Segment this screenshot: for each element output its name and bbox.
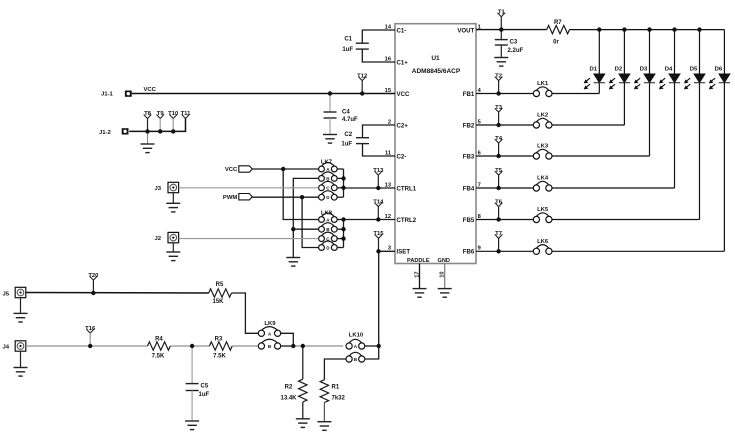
LED D5	[684, 66, 705, 89]
svg-text:LK6: LK6	[537, 239, 549, 245]
svg-text:C5: C5	[201, 384, 209, 390]
svg-text:FB1: FB1	[463, 91, 475, 98]
wire J4 row to R4	[26, 345, 148, 347]
wire PWM branch down to LK8-D	[302, 197, 318, 247]
wire J2 to ground	[172, 243, 174, 252]
svg-text:LK2: LK2	[537, 113, 549, 119]
svg-text:T4: T4	[495, 136, 503, 142]
svg-text:7k32: 7k32	[332, 395, 346, 401]
wire D4 cathode	[674, 83, 676, 188]
svg-text:7.5K: 7.5K	[213, 354, 226, 360]
ground under GND pin 10	[438, 289, 452, 298]
svg-text:T8: T8	[144, 111, 152, 117]
LED D1	[584, 66, 605, 89]
svg-text:J2: J2	[155, 236, 162, 242]
wire ISET vertical down to LK10-B	[365, 346, 379, 359]
svg-text:LK3: LK3	[537, 144, 549, 150]
test point T6	[495, 199, 503, 219]
svg-text:FB2: FB2	[463, 122, 475, 129]
svg-text:C2: C2	[344, 132, 352, 138]
jumper LK5	[533, 207, 552, 223]
net flag PWM	[223, 194, 252, 201]
jumper LK8-C	[319, 232, 338, 241]
test point T5	[495, 168, 503, 188]
test point T9	[156, 111, 164, 131]
svg-text:C3: C3	[510, 39, 518, 45]
svg-text:J4: J4	[3, 345, 10, 351]
wire PWM flag to LK7-D	[252, 196, 318, 198]
jumper LK7-A	[319, 163, 338, 172]
svg-text:T2: T2	[495, 73, 503, 79]
svg-text:T5: T5	[495, 168, 503, 174]
svg-text:0r: 0r	[553, 40, 559, 46]
ground under PADDLE pin 17	[413, 289, 427, 298]
svg-text:R2: R2	[285, 384, 293, 390]
wire FB5 row	[476, 219, 700, 221]
svg-text:D1: D1	[590, 66, 598, 72]
U1 right pin numbers	[478, 24, 482, 251]
svg-text:CTRL1: CTRL1	[397, 185, 417, 192]
svg-text:T15: T15	[373, 231, 384, 237]
ground under J2	[166, 252, 180, 261]
ground under J3	[166, 203, 180, 212]
wire LK10-A right to ISET vertical	[365, 345, 379, 347]
wire pin 17 to ground	[419, 264, 421, 289]
svg-text:LK1: LK1	[537, 81, 549, 87]
capacitor C3	[495, 39, 524, 54]
svg-text:VCC: VCC	[225, 167, 238, 173]
wire C5 stem	[191, 346, 193, 384]
resistor R7	[547, 20, 570, 46]
jumper LK7-C	[319, 181, 338, 190]
op-amp U1 ADM8845/6ACP IC body	[395, 24, 476, 264]
LED D2	[609, 66, 630, 89]
wire C4 stem	[329, 94, 331, 113]
svg-text:GND: GND	[438, 258, 450, 264]
ground under J1-2 rail	[141, 144, 155, 153]
wire D6 cathode	[723, 83, 725, 252]
svg-text:15K: 15K	[212, 299, 224, 305]
svg-text:7.5K: 7.5K	[152, 354, 165, 360]
test point T16	[85, 326, 96, 346]
capacitor C4	[324, 110, 359, 123]
wire CTRL2 to pin 12	[344, 219, 396, 221]
wire D3 cathode	[649, 83, 651, 156]
jumper LK9-B	[258, 339, 280, 349]
test point T20	[88, 273, 99, 293]
ground under J5	[14, 313, 28, 322]
wire FB3 row	[476, 155, 650, 157]
wire C3 stem	[500, 30, 502, 40]
wire ISET pin 3	[379, 250, 396, 252]
svg-text:D4: D4	[665, 66, 673, 72]
test point T11	[181, 111, 192, 118]
svg-text:VCC: VCC	[144, 87, 157, 93]
svg-text:T10: T10	[168, 111, 179, 117]
wire LK8-B stub	[293, 228, 318, 230]
svg-text:R3: R3	[215, 337, 223, 343]
test point T8	[144, 111, 152, 131]
wire VCC: J1-1 to pin 15	[132, 93, 395, 95]
wire pin2 C2+ to C2	[363, 125, 396, 138]
jumper LK6	[533, 239, 552, 255]
svg-text:1uF: 1uF	[342, 47, 353, 53]
svg-text:T16: T16	[85, 326, 96, 332]
wire D2 cathode	[623, 83, 625, 125]
wire D1 cathode	[598, 83, 600, 94]
wire VCC branch down to LK8-A	[283, 169, 318, 220]
wire FB2 row	[476, 124, 624, 126]
jumper LK4	[533, 176, 552, 192]
wire R3 to LK9-B	[232, 345, 258, 347]
svg-text:R4: R4	[155, 337, 163, 343]
wire C5 to ground	[191, 391, 193, 422]
net flag VCC	[225, 166, 252, 173]
LED D6	[709, 66, 730, 89]
ground under C5	[185, 421, 199, 430]
capacitor C2	[341, 132, 369, 147]
test point T15	[373, 231, 384, 251]
svg-text:FB5: FB5	[463, 217, 475, 224]
svg-text:C1-: C1-	[397, 27, 407, 34]
svg-text:FB4: FB4	[463, 185, 475, 192]
connector J1-2 pad	[122, 128, 129, 134]
wire VOUT pin1 to rail	[476, 29, 547, 31]
wire D5 cathode	[699, 83, 701, 220]
svg-text:C2+: C2+	[397, 122, 409, 129]
connector J5	[15, 287, 26, 297]
svg-text:J3: J3	[155, 186, 162, 192]
test point T2	[495, 73, 503, 93]
wire D5 anode	[699, 30, 701, 74]
wire LK7 right common vertical	[337, 169, 343, 197]
svg-text:LK9: LK9	[264, 321, 276, 327]
svg-text:VCC: VCC	[397, 91, 410, 98]
svg-text:FB6: FB6	[463, 249, 475, 256]
svg-text:T3: T3	[495, 105, 503, 111]
svg-text:J5: J5	[3, 291, 10, 297]
wire CTRL1 to pin 13	[344, 187, 396, 189]
capacitor C5	[186, 384, 210, 398]
svg-text:J1-2: J1-2	[99, 130, 112, 136]
svg-text:T7: T7	[495, 231, 503, 237]
jumper LK1	[533, 81, 552, 97]
wire C4 to ground	[329, 118, 331, 135]
resistor R1	[320, 380, 345, 403]
test point T12	[357, 73, 368, 93]
ground under J4	[14, 368, 28, 377]
svg-text:ADM8845/6ACP: ADM8845/6ACP	[412, 68, 461, 75]
wire J3 to ground	[172, 193, 174, 204]
wire R2 to ground	[302, 402, 304, 419]
svg-text:LK4: LK4	[537, 176, 549, 182]
svg-text:4.7uF: 4.7uF	[342, 117, 358, 123]
connector J2	[168, 232, 179, 242]
wire C1 to pin16 C1+	[362, 49, 395, 62]
wire LK10-B to R1	[324, 359, 346, 380]
svg-text:T1: T1	[498, 9, 506, 15]
svg-text:C1+: C1+	[397, 59, 409, 66]
jumper LK10-A	[346, 339, 365, 349]
wire J5 row to R5	[26, 292, 209, 295]
jumper LK8-A	[319, 213, 338, 222]
svg-text:FB3: FB3	[463, 153, 475, 160]
wire pin 10 to ground	[444, 264, 446, 289]
svg-text:C4: C4	[342, 110, 350, 116]
wire D4 anode	[674, 30, 676, 74]
test point T7	[495, 231, 503, 251]
wire C3 to ground	[500, 45, 502, 58]
wire R4 to R3	[170, 345, 209, 347]
wire LED anode rail	[570, 29, 725, 31]
wire FB4 row	[476, 187, 675, 189]
wire pin14 C1- to C1	[362, 30, 395, 43]
jumper LK8-B	[319, 223, 338, 232]
U1 left pin numbers	[385, 24, 392, 251]
wire D1 anode	[598, 30, 600, 74]
svg-text:T20: T20	[88, 273, 99, 279]
ground under C3	[494, 58, 508, 67]
svg-text:D5: D5	[690, 66, 698, 72]
ground under C4	[323, 135, 337, 144]
svg-text:PWM: PWM	[223, 195, 237, 201]
LED D4	[659, 66, 680, 89]
wire J1-2 to T11	[129, 118, 185, 131]
test point T1	[498, 9, 506, 29]
jumper LK7-D	[319, 191, 338, 200]
U1 bottom pin numbers 17 and 10 (rotated)	[414, 271, 445, 277]
svg-text:T9: T9	[157, 111, 165, 117]
svg-text:D2: D2	[615, 66, 623, 72]
wire FB1 row	[476, 93, 599, 95]
connector J3	[168, 182, 179, 192]
wire J3 to LK7-C	[179, 187, 319, 189]
wire J5 to ground	[20, 298, 22, 314]
wire D2 anode	[623, 30, 625, 74]
resistor R5	[209, 282, 232, 305]
svg-text:PADDLE: PADDLE	[407, 258, 430, 264]
wire C2 to pin11 C2-	[363, 144, 396, 156]
jumper LK9-A	[258, 327, 280, 337]
wire VCC flag to LK7-A	[252, 168, 318, 170]
test point T10	[168, 111, 179, 131]
wire FB6 row	[476, 250, 724, 252]
svg-text:C2-: C2-	[397, 153, 407, 160]
svg-text:1uF: 1uF	[341, 141, 352, 147]
LED D3	[634, 66, 655, 89]
svg-text:CTRL2: CTRL2	[397, 217, 417, 224]
wire D3 anode	[649, 30, 651, 74]
svg-text:C1: C1	[344, 37, 352, 43]
ground under R1	[317, 422, 331, 431]
svg-text:T13: T13	[373, 168, 384, 174]
ground for LK7/LK8 B option	[286, 258, 300, 267]
connector J1-1 pad	[125, 91, 132, 97]
svg-text:13.4K: 13.4K	[280, 395, 297, 401]
U1 bottom pin names PADDLE GND	[407, 258, 450, 264]
svg-text:T6: T6	[495, 199, 503, 205]
connector J4	[15, 341, 26, 351]
wire J4 to ground	[20, 351, 22, 367]
resistor R3	[209, 337, 232, 360]
jumper LK2	[533, 113, 552, 129]
wire R1 to ground	[323, 403, 325, 422]
wire R2 stem	[302, 346, 304, 379]
test point T4	[495, 136, 503, 156]
svg-text:R7: R7	[554, 20, 562, 26]
wire LK9-A to row B	[281, 333, 294, 346]
U1 right pin names	[457, 27, 475, 255]
svg-text:J1-1: J1-1	[101, 92, 114, 98]
capacitor C1	[342, 37, 368, 54]
jumper LK3	[533, 144, 552, 160]
svg-text:LK10: LK10	[349, 333, 364, 339]
resistor R4	[148, 337, 171, 360]
resistor R2	[280, 379, 307, 402]
wire R5 to LK9-A	[232, 293, 259, 333]
wire LK9-B right	[281, 345, 294, 347]
wire LK8 right common vertical	[337, 220, 343, 248]
test point T13	[373, 168, 384, 188]
jumper LK8-D	[319, 241, 338, 250]
svg-text:T14: T14	[373, 199, 384, 205]
svg-text:VOUT: VOUT	[457, 27, 474, 34]
svg-text:T11: T11	[181, 111, 192, 117]
svg-text:D3: D3	[640, 66, 648, 72]
wire D6 anode	[723, 30, 725, 74]
test point T3	[495, 105, 503, 125]
test point T14	[373, 199, 384, 219]
wire ISET down to LK10-A	[378, 251, 380, 346]
svg-text:ISET: ISET	[397, 249, 411, 256]
svg-text:R1: R1	[332, 384, 340, 390]
wire LK7-B to ground rail	[293, 178, 318, 257]
svg-text:2.2uF: 2.2uF	[508, 48, 524, 54]
jumper LK10-B	[346, 352, 365, 362]
svg-text:LK5: LK5	[537, 207, 549, 213]
wire LK9 to LK10	[293, 345, 343, 347]
wire T8 to ground	[147, 131, 149, 144]
svg-text:1uF: 1uF	[199, 392, 210, 398]
svg-text:D6: D6	[715, 66, 723, 72]
svg-text:U1: U1	[431, 55, 440, 62]
svg-text:T12: T12	[357, 73, 368, 79]
jumper LK7-B	[319, 172, 338, 181]
svg-text:R5: R5	[216, 282, 224, 288]
wire J2 to LK8-C	[179, 238, 319, 240]
ground under R2	[296, 419, 310, 428]
U1 left pin names	[397, 27, 417, 255]
